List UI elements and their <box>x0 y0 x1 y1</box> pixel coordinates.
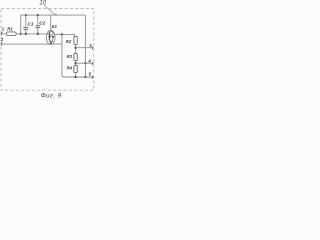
resistor R1 <box>6 32 16 36</box>
transistor K1 collector lead to bus <box>50 15 52 30</box>
node bus riser / tap 4 <box>84 62 86 64</box>
transistor K1 lower electrodes <box>49 39 53 44</box>
svg-text:1: 1 <box>2 27 5 32</box>
terminal 4 tick <box>91 62 94 65</box>
terminal 3 tick <box>91 47 94 50</box>
resistor R4 <box>74 65 77 72</box>
node tap 4 <box>74 62 76 64</box>
svg-text:С1: С1 <box>28 21 34 26</box>
wire R2 to R3 <box>75 44 77 53</box>
resistor R2 <box>74 37 77 45</box>
top bus wire <box>21 15 86 34</box>
leader line from label 10 <box>44 5 58 15</box>
capacitor C1 top lead <box>25 15 27 27</box>
terminal 1 tick <box>0 32 3 35</box>
svg-text:4: 4 <box>87 59 91 64</box>
capacitor C2 plates <box>36 25 41 27</box>
svg-text:R1: R1 <box>7 27 13 32</box>
svg-text:10: 10 <box>39 0 46 7</box>
svg-text:К1: К1 <box>52 24 58 29</box>
wire transistor output to R2 <box>55 34 75 36</box>
capacitor C1 plates <box>23 27 28 29</box>
wire tap 3 to terminal <box>76 47 94 49</box>
node R4/bottom rail <box>74 76 76 78</box>
outer dashed enclosure (block 10) <box>1 9 94 90</box>
transistor K1 internal electrode loop <box>50 32 54 36</box>
svg-text:R4: R4 <box>67 66 73 71</box>
transistor K1 collector arrow right <box>52 36 55 39</box>
capacitor C1 bottom lead <box>25 30 27 34</box>
node tap 3 <box>74 47 76 49</box>
capacitor C2 top lead <box>37 15 39 26</box>
bottom rail wire <box>63 76 94 78</box>
node output/divider riser <box>61 33 63 35</box>
node C2/top bus <box>37 14 39 16</box>
svg-text:Фиг. 9: Фиг. 9 <box>41 93 62 100</box>
terminal 2 tick <box>0 42 3 45</box>
background <box>0 0 95 100</box>
wire riser down to bottom rail <box>62 34 64 77</box>
node riser/bottom rail <box>84 76 86 78</box>
node C2/main wire <box>37 33 39 35</box>
node C1/main wire <box>25 33 27 35</box>
node at main wire / riser junction <box>20 33 22 35</box>
wire bus right riser <box>84 15 86 77</box>
wire R3 to R4 <box>75 61 77 66</box>
wire terminal 2 (lower net) <box>1 43 62 45</box>
terminal 5 tick <box>91 76 94 79</box>
svg-text:С2: С2 <box>39 21 45 26</box>
resistor R3 <box>74 54 77 61</box>
node C1/top bus <box>25 14 27 16</box>
capacitor C2 bottom lead <box>37 28 39 34</box>
transistor K1 envelope <box>46 30 55 44</box>
transistor K1 emitter arrow left <box>48 36 51 39</box>
main input wire (terminal 1 net) <box>1 33 49 35</box>
svg-text:R2: R2 <box>66 39 72 44</box>
svg-text:R3: R3 <box>67 54 73 59</box>
transistor K1 base bar <box>48 32 50 41</box>
wire R4 to bottom rail <box>75 73 77 78</box>
svg-text:2: 2 <box>0 37 4 42</box>
wire tap 4 to terminal <box>76 62 94 64</box>
